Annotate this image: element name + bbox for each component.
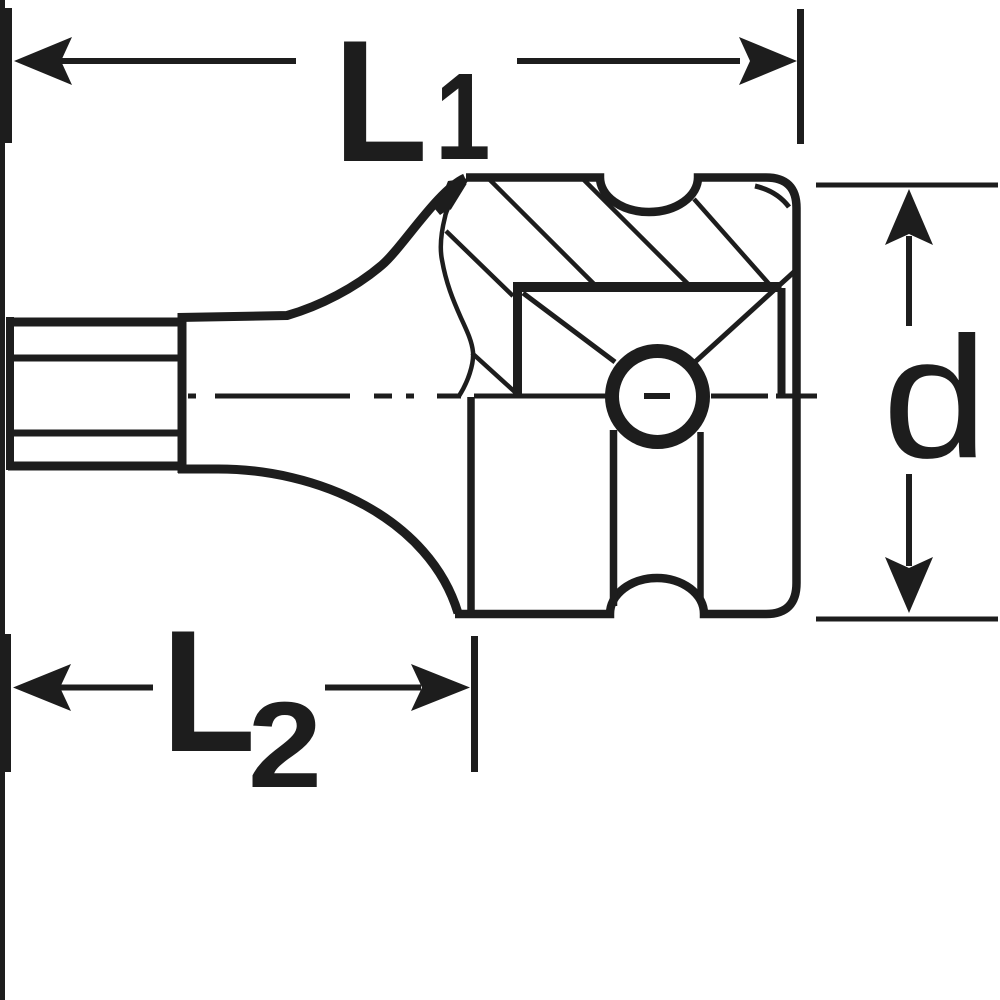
svg-text:2: 2 <box>248 677 322 814</box>
svg-text:L: L <box>162 594 256 788</box>
svg-text:1: 1 <box>435 48 490 186</box>
svg-text:d: d <box>882 302 988 494</box>
svg-text:L: L <box>334 4 428 198</box>
